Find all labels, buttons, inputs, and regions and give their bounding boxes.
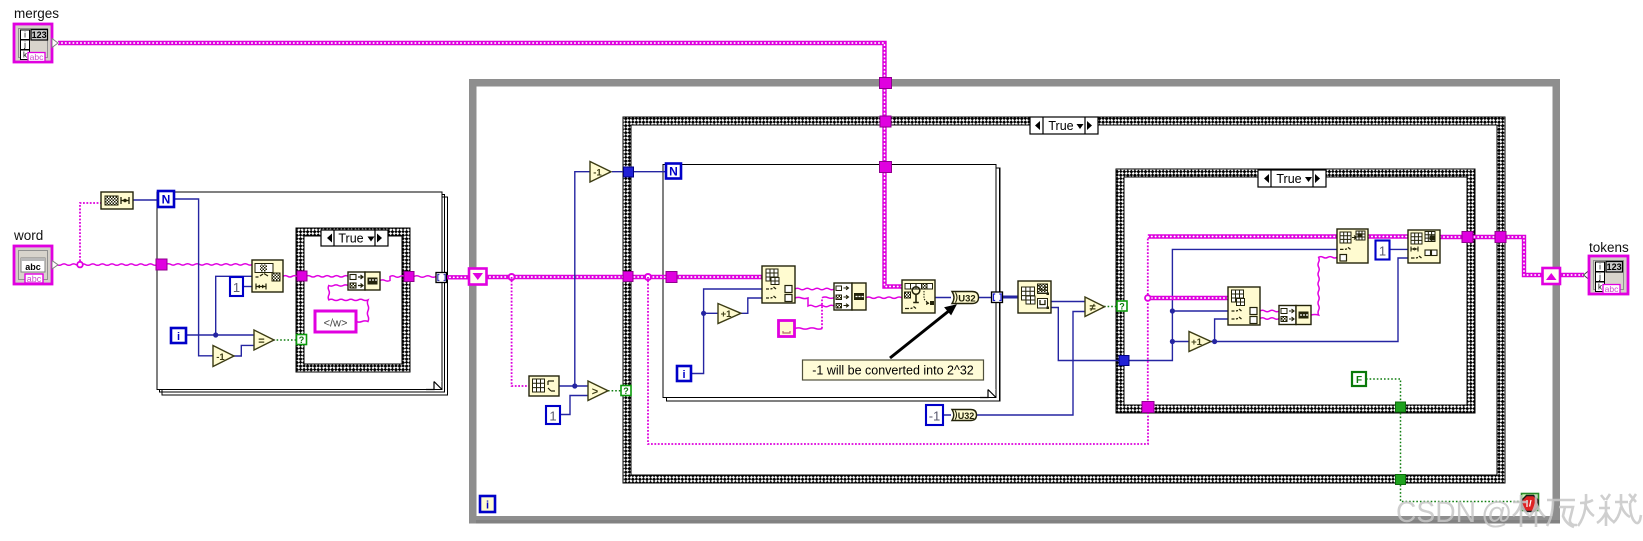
- tunnel C3 bottom pink (word array): [1142, 402, 1154, 413]
- wire array size out / to greater and decrement: [559, 172, 590, 389]
- svg-text:i: i: [682, 369, 685, 381]
- shift register right (up arrow): [1543, 268, 1561, 284]
- terminal N (F2 count): [666, 164, 681, 179]
- control merges (array of clusters): [14, 24, 58, 62]
- node string length L1: [101, 192, 133, 209]
- svg-text:≠: ≠: [1089, 302, 1095, 314]
- case structure C1 (left True case): [296, 228, 410, 372]
- for loop F2 (middle, pair-score loop): [663, 165, 1000, 402]
- wire right shift register to tokens (chain): [1560, 273, 1584, 277]
- svg-text:123: 123: [1607, 262, 1622, 272]
- wire main word-array run inside while loop (chain): [486, 274, 762, 280]
- tunnel C2 top pink (merges): [880, 116, 891, 127]
- terminal i (W1 iteration): [480, 496, 495, 512]
- wire not-equal to C3 selector (green dotted): [1104, 306, 1117, 308]
- svg-text:?: ?: [1119, 302, 1125, 312]
- terminal i (F1 iteration): [171, 328, 186, 343]
- svg-text:U32: U32: [958, 411, 975, 421]
- node not equal NE1: [1085, 297, 1105, 317]
- wire word inside F1 to string subset: [166, 264, 252, 265]
- node U32 conversion bubble B1: [952, 292, 979, 305]
- tunnel C3 bottom green: [1396, 402, 1406, 412]
- wire F const to loop condition (green dotted): [1366, 379, 1522, 502]
- const F boolean: [1352, 372, 1366, 386]
- case selector label C1 "True": [321, 230, 388, 246]
- const </w> string: [315, 311, 356, 332]
- tunnel C3 left blue (min index): [1119, 356, 1129, 366]
- svg-text:abc: abc: [25, 262, 41, 272]
- watermark: [1396, 494, 1641, 530]
- case selector label C2 "True": [1030, 117, 1098, 134]
- node concatenate strings S2: [348, 272, 380, 290]
- wire min index into C3 and up to replace: [1128, 249, 1337, 360]
- node replace array subset R1: [1337, 229, 1368, 263]
- tunnel C2 selector ?: [621, 386, 631, 397]
- wire replace out to delete (chain): [1368, 234, 1408, 238]
- svg-text:i: i: [486, 500, 489, 512]
- svg-text:merges: merges: [14, 6, 59, 21]
- svg-text:i: i: [24, 31, 26, 40]
- svg-text:+1: +1: [721, 309, 733, 320]
- svg-text:j: j: [1598, 273, 1601, 282]
- wire through C1 to concat S1: [306, 276, 348, 277]
- wire concat2 out up to replace new element: [1311, 257, 1337, 315]
- wire word string to F1: [52, 203, 158, 267]
- svg-text:>: >: [592, 386, 598, 398]
- wire i F2 to index array / +1: [691, 289, 762, 374]
- terminal N (F1 count): [158, 191, 174, 207]
- case selector label C3 "True": [1258, 170, 1326, 187]
- wire 1 const to greater: [560, 396, 588, 415]
- indicator tokens (array of clusters): [1584, 256, 1629, 294]
- tunnel C2 left blue (N in): [624, 167, 634, 177]
- const 1 (subset length): [230, 277, 243, 296]
- wire </w> const to concat S1: [328, 285, 368, 322]
- wire +1 out to delete index and index2 second index: [1211, 258, 1408, 344]
- tunnel F1 left (word in): [156, 259, 167, 270]
- node index array X2: [1228, 287, 1260, 325]
- node concatenate strings S4: [1279, 306, 1311, 325]
- wire index-array out to array max min (blue array): [1003, 296, 1018, 299]
- const 1 (compare): [546, 406, 560, 424]
- tunnel F1 right indexed []: [436, 273, 447, 283]
- terminal loop condition (stop): [1522, 494, 1539, 512]
- wire decrement to equals: [234, 345, 254, 356]
- tunnel C1 right (string out): [404, 272, 414, 282]
- svg-text:123: 123: [32, 30, 47, 40]
- svg-text:U32: U32: [958, 294, 975, 305]
- node greater G1: [588, 381, 608, 401]
- svg-text:1: 1: [233, 280, 240, 295]
- wire decrement out to N of F2: [612, 171, 666, 173]
- svg-text:?: ?: [623, 386, 629, 396]
- svg-text:-1: -1: [929, 409, 941, 424]
- node search 1d array Q1: [902, 280, 935, 313]
- case structure C2 (outer True case): [623, 117, 1505, 483]
- wire i to equals (junction to subset offset): [186, 276, 254, 337]
- tunnel W1 top pink (merges): [880, 78, 892, 89]
- wire word array inside C3 (dotted vertical + chain runs): [1145, 237, 1337, 408]
- wire 1 const to delete: [1390, 248, 1408, 250]
- tunnel F2 top pink (merges): [880, 162, 892, 173]
- node string subset S1: [252, 260, 283, 292]
- tunnel C2 left pink (word array): [623, 272, 633, 282]
- wire index element0 to concat: [795, 288, 834, 289]
- svg-text:True: True: [1048, 119, 1073, 133]
- wire delete out through tunnels to right shift register (chain): [1440, 237, 1543, 275]
- node junction word branch: [77, 262, 83, 268]
- svg-text:F: F: [1356, 375, 1362, 386]
- wire max min outputs: [1051, 301, 1085, 303]
- wire greater out to C2 selector (green dotted): [608, 390, 621, 392]
- svg-text:True: True: [338, 232, 363, 246]
- tunnel F2 right indexed []: [992, 292, 1003, 303]
- wire space const to concat input2: [795, 328, 822, 329]
- node increment P2: [1189, 332, 1211, 352]
- svg-text:j: j: [23, 41, 26, 50]
- const space string: [779, 321, 795, 337]
- wire search out to U32 to indexed tunnel: [935, 297, 991, 299]
- wire N to decrement: [174, 199, 213, 356]
- shift register left (down arrow): [469, 269, 487, 285]
- node decrement D1: [213, 346, 234, 367]
- wire 1 const to subset length: [243, 286, 252, 288]
- wire branch under loop to C3 bottom tunnel (pink dotted): [648, 277, 1148, 444]
- node equal E1: [254, 330, 274, 350]
- wire -1 U32 up to not-equal: [942, 312, 1085, 416]
- tunnel C2 bottom green: [1396, 475, 1406, 485]
- wire F1 indexed out to left shift register (chain): [446, 275, 469, 279]
- tunnel C2 right pink (array out): [1495, 232, 1506, 243]
- svg-text:CSDN: CSDN: [1396, 496, 1476, 529]
- svg-text:word: word: [13, 228, 43, 243]
- wire +1 out to index array second index: [741, 298, 762, 313]
- svg-text:i: i: [1599, 263, 1601, 272]
- tunnel C3 selector ?: [1117, 301, 1127, 312]
- for loop F1 (left, word split loop): [157, 192, 448, 395]
- tunnel F2 left pink (word array): [666, 272, 677, 283]
- const 1 (delete length): [1376, 241, 1390, 260]
- node increment P1: [718, 304, 741, 324]
- const -1: [926, 405, 943, 425]
- svg-text:=: =: [258, 336, 264, 348]
- control word (string): [14, 246, 58, 284]
- node array max min M1: [1018, 281, 1051, 313]
- wire string length to N: [133, 199, 159, 201]
- svg-text:tokens: tokens: [1589, 240, 1629, 255]
- svg-text:-1: -1: [593, 168, 602, 179]
- wire concat S1 out to tunnels: [380, 276, 436, 281]
- svg-text:</w>: </w>: [324, 318, 348, 330]
- svg-text:-1 will be converted into 2^32: -1 will be converted into 2^32: [812, 364, 974, 378]
- svg-text:-1: -1: [216, 352, 225, 363]
- svg-text:abc: abc: [1605, 284, 1619, 294]
- tunnel C1 selector ?: [297, 335, 307, 346]
- svg-text:True: True: [1276, 172, 1301, 186]
- wire equals to case selector (green dotted): [273, 339, 297, 341]
- wire concat out to search 1d array: [866, 297, 902, 298]
- svg-text:?: ?: [299, 335, 305, 345]
- svg-text:abc: abc: [30, 52, 44, 62]
- tunnel C1 left (string in): [297, 271, 307, 281]
- svg-text:N: N: [669, 165, 678, 179]
- wire index element1 to concat input3: [795, 297, 834, 306]
- wire branch to array size (pink dotted): [512, 277, 529, 386]
- node U32 conversion bubble B2: [952, 410, 977, 422]
- wire subset out to case C1: [283, 276, 306, 277]
- tunnel C3 right pink (array out): [1462, 232, 1473, 243]
- case structure C3 (right True case, merge step): [1116, 169, 1475, 413]
- svg-text:@: @: [1481, 495, 1512, 530]
- node array size A1: [529, 376, 559, 396]
- svg-text:i: i: [177, 331, 180, 343]
- node index array X1: [762, 266, 795, 303]
- svg-text:+1: +1: [1191, 337, 1203, 348]
- node concatenate strings S3 (3 inputs): [834, 283, 866, 310]
- wire index2 elements to concat2: [1260, 310, 1279, 319]
- node delete from array DEL1: [1408, 230, 1440, 263]
- svg-text:1: 1: [549, 409, 556, 424]
- svg-text:abc: abc: [27, 274, 42, 284]
- annotation label with arrow: [803, 305, 984, 380]
- while loop W1 (outer gray border): [473, 83, 1560, 524]
- svg-text:N: N: [162, 193, 171, 207]
- svg-text:1: 1: [1379, 244, 1386, 259]
- terminal i (F2 iteration): [677, 366, 691, 381]
- wire merges array (chain) top run: [58, 43, 902, 287]
- node decrement D2: [590, 162, 611, 183]
